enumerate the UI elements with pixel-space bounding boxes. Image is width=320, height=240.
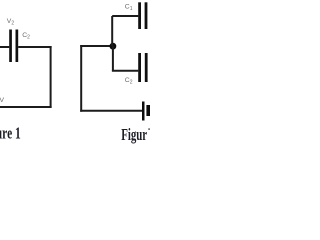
wire: left vertical branch (fig.2)	[80, 45, 82, 112]
svg-text:Figure 1: Figure 1	[0, 124, 21, 143]
capacitor C2 (fig.2) plates	[138, 53, 147, 82]
wire: top horizontal to junction node (fig.2)	[80, 45, 113, 47]
wire: vertical up from node to C1 branch (fig.2)	[111, 16, 113, 46]
wire: horizontal lead into C1 (fig.2)	[112, 15, 138, 17]
battery: short thick plate (fig.2)	[146, 105, 150, 116]
svg-text:Figur: Figur	[121, 125, 147, 144]
node: junction dot (fig.2)	[110, 43, 117, 50]
svg-text:C2: C2	[22, 32, 30, 41]
wire: left lead into capacitor C2 (fig.1)	[0, 46, 9, 48]
wire: bottom horizontal to battery (fig.2)	[80, 110, 142, 112]
capacitor C1 (fig.2) plates	[138, 2, 147, 29]
svg-text:V: V	[0, 97, 5, 104]
svg-text:V2: V2	[7, 18, 15, 27]
wire: right lead from capacitor to right side (fig.1)	[18, 46, 51, 48]
caption: clipped tip of letter e of "Figure 2" at right edge	[148, 128, 150, 129]
wire: bottom side of loop (fig.1)	[0, 106, 52, 108]
wire: horizontal lead into C2 (fig.2)	[112, 70, 138, 72]
wire: vertical down from node to C2 branch (fig.2)	[112, 46, 114, 71]
battery: long plate (fig.2)	[142, 102, 145, 121]
capacitor C2 (fig.1) plates	[9, 30, 18, 63]
wire: right vertical side of loop (fig.1)	[50, 46, 52, 108]
svg-text:C1: C1	[125, 4, 133, 13]
svg-text:C2: C2	[125, 77, 133, 86]
